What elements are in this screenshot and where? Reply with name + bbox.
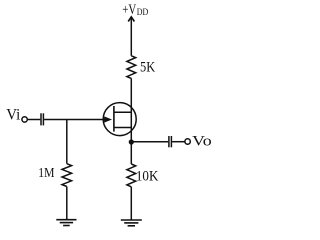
wire 10K to ground xyxy=(130,187,132,220)
value label 5K xyxy=(140,59,155,75)
svg-text:+V: +V xyxy=(122,2,136,18)
value label 10K xyxy=(136,168,159,185)
wire cap to gate xyxy=(44,119,109,121)
svg-text:1M: 1M xyxy=(38,165,54,180)
resistor 5K xyxy=(127,56,136,79)
resistor 1M xyxy=(62,120,72,220)
wire output cap to Vo terminal xyxy=(172,141,185,143)
capacitor C2 (output coupling) xyxy=(169,136,172,147)
transistor Q1 gate arrow xyxy=(104,117,111,122)
capacitor C1 (input coupling) xyxy=(41,113,43,125)
node Vi label xyxy=(6,107,21,124)
svg-text:5K: 5K xyxy=(140,59,155,75)
svg-text:Vi: Vi xyxy=(6,107,21,124)
power arrow to +VDD xyxy=(128,17,134,22)
svg-text:Vo: Vo xyxy=(192,133,212,150)
svg-text:DD: DD xyxy=(137,8,149,18)
node Vo label xyxy=(192,133,212,150)
node +VDD label xyxy=(122,2,148,18)
svg-text:10K: 10K xyxy=(136,168,159,185)
transistor Q1 drain arm xyxy=(114,111,132,113)
transistor Q1 channel bar xyxy=(113,106,115,132)
value label 1M xyxy=(38,165,54,180)
transistor Q1 circle xyxy=(103,103,136,136)
junction dot (source node) xyxy=(129,139,134,144)
ground (left) xyxy=(56,220,76,226)
input terminal Vi xyxy=(22,117,27,122)
wire Vi terminal to coupling cap xyxy=(27,119,40,121)
transistor Q1 source arm xyxy=(114,127,132,129)
wire source node to output cap xyxy=(131,141,168,143)
ground (right) xyxy=(121,220,142,226)
output terminal Vo xyxy=(185,139,190,144)
wire VDD rail down to 5K xyxy=(130,17,132,55)
resistor 10K xyxy=(127,164,136,187)
wire 5K to drain through transistor to junction xyxy=(130,78,132,164)
